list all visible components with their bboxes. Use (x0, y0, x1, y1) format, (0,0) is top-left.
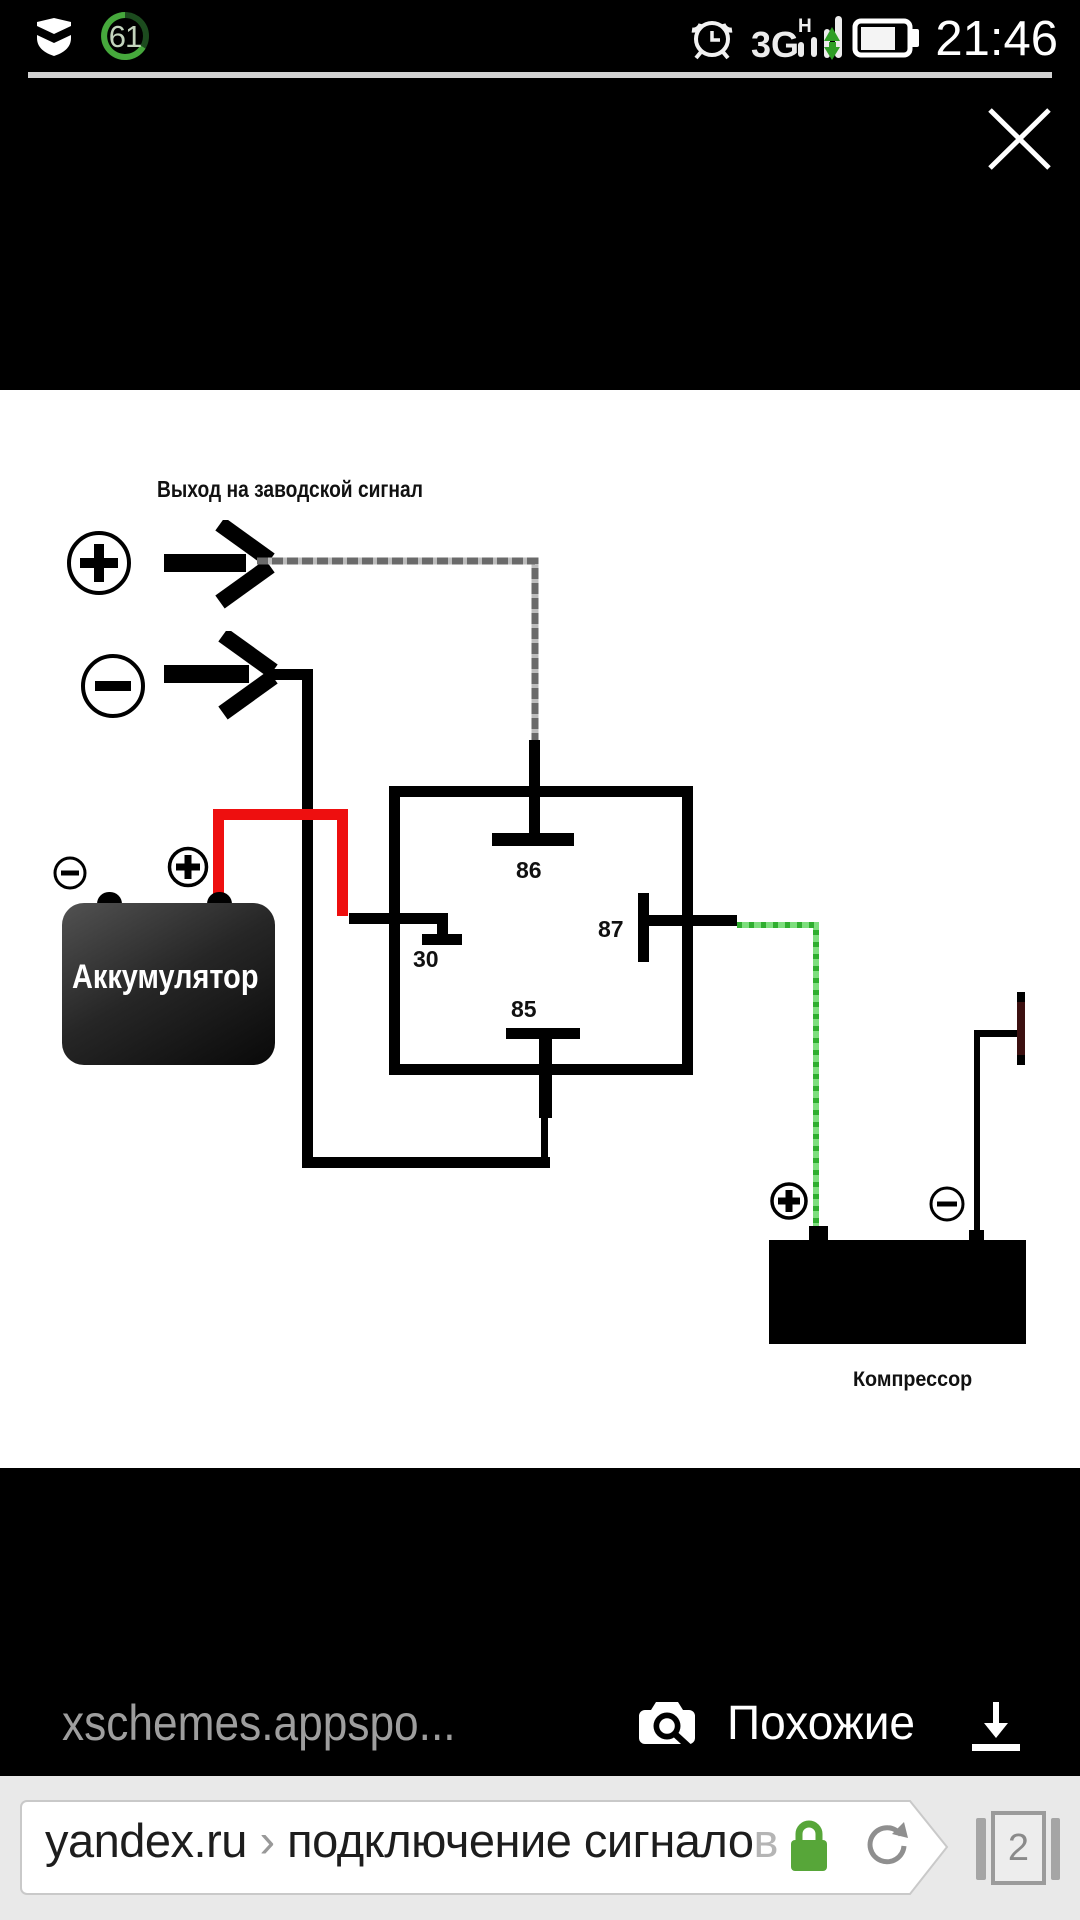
compressor body (769, 1240, 1026, 1344)
pin 86 T-bar (492, 833, 574, 846)
minus terminal symbol (signal -) (78, 651, 148, 721)
wire: minus vertical (302, 669, 313, 1168)
download icon (966, 1695, 1026, 1755)
alarm clock icon (696, 23, 728, 55)
svg-text:61: 61 (109, 19, 141, 54)
label Компрессор (853, 1368, 972, 1392)
shield app icon (37, 18, 71, 56)
arrow 2 (to factory horn, -) (163, 631, 288, 726)
title: Выход на заводской сигнал (157, 476, 423, 503)
red wire down to pin 30 (337, 809, 348, 916)
label 86 (516, 857, 542, 884)
wire: black stub pin 86 (529, 740, 540, 840)
WHITE SCHEMATIC CANVAS (0, 390, 1080, 1468)
wire: thin horizontal to horn (974, 1030, 1018, 1037)
label 87 (598, 916, 624, 943)
battery terminal right (207, 892, 232, 927)
red wire horizontal (213, 809, 348, 820)
green lock (786, 1819, 832, 1875)
pin 87 bar (638, 893, 649, 962)
data arrows (824, 27, 840, 41)
relay box (389, 786, 693, 1075)
signal bars (798, 42, 804, 57)
pin 85 thin lead (541, 1118, 548, 1158)
camera search icon (637, 1697, 697, 1749)
pin 85 stub (539, 1039, 552, 1118)
svg-text:3G: 3G (751, 24, 799, 65)
svg-text:21:46: 21:46 (935, 12, 1058, 66)
wire: pin 87 lead (649, 915, 737, 926)
compressor - terminal (969, 1230, 984, 1240)
close X button (980, 100, 1060, 180)
horn element (1017, 992, 1025, 1065)
STATUS BAR (0, 0, 1080, 80)
BOTTOM TOOLBAR (black) (62, 1694, 456, 1752)
pin 85 T-bar (506, 1028, 580, 1039)
arrow 1 (to factory horn, +) (160, 520, 285, 615)
red wire battery+ vertical (213, 809, 224, 899)
compressor + terminal (809, 1226, 828, 1240)
battery minus circle (52, 855, 88, 891)
dashed gray wire from + arrow to relay pin 86 (250, 550, 550, 750)
battery terminal left (97, 892, 122, 927)
address pill (0, 1776, 1080, 1920)
compressor minus circle (928, 1185, 966, 1223)
wire: minus bottom horizontal (302, 1157, 550, 1168)
battery badge 61 (104, 15, 146, 57)
label 85 (511, 996, 537, 1023)
wire: thin minus wire of compressor (974, 1037, 980, 1230)
pin 30 T-bar (422, 934, 462, 945)
refresh icon (862, 1818, 912, 1874)
BOTTOM BROWSER BAR (gray) (0, 1776, 1080, 1920)
wire: pin 30 lead (349, 913, 448, 924)
battery plus circle (166, 845, 210, 889)
battery body Аккумулятор (62, 903, 275, 1065)
green dashed wire pin87 to compressor + (730, 915, 830, 1245)
compressor plus circle (769, 1181, 809, 1221)
label 30 (413, 946, 439, 973)
wire: minus from arrow 2 (270, 669, 313, 680)
pin 30 step (437, 913, 448, 945)
plus terminal symbol (signal +) (64, 528, 134, 598)
svg-text:H: H (798, 16, 812, 37)
battery icon (855, 21, 910, 55)
tab switcher (976, 1818, 986, 1880)
